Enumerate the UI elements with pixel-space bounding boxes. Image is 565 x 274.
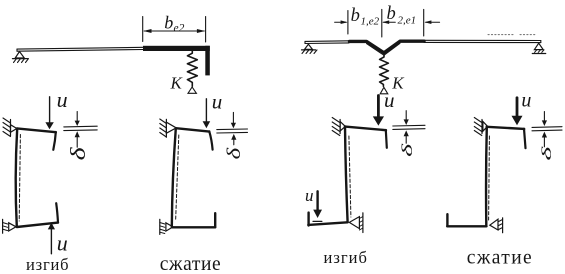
- svg-text:b: b: [387, 4, 396, 24]
- dimension right tick: [423, 9, 425, 36]
- svg-text:δ: δ: [399, 143, 415, 157]
- svg-text:u: u: [212, 89, 223, 113]
- dotted artifact line above right beam: [488, 34, 537, 36]
- svg-text:e2: e2: [174, 23, 185, 35]
- fig4 bottom support (right of web): [490, 218, 503, 233]
- svg-text:u: u: [305, 186, 314, 205]
- fig4 bottom flange (points left): [447, 225, 486, 227]
- thick effective-width flange segment: [143, 46, 210, 51]
- fig4 top load arrow u (bold): [516, 98, 519, 117]
- fig1 dashed undeformed line: [19, 135, 20, 222]
- spring K (left model): [187, 51, 197, 86]
- fig3 top lip: [386, 130, 387, 148]
- dimension b_e2: right tick: [205, 17, 207, 42]
- fig4 top lip: [524, 129, 526, 149]
- thin line under V: [367, 43, 401, 55]
- svg-text:2,e1: 2,e1: [398, 14, 417, 26]
- fig4 web: [485, 127, 488, 226]
- fig2 bottom support: [160, 219, 173, 234]
- svg-text:b: b: [351, 6, 360, 26]
- fig1 bottom load arrow u (upward): [50, 229, 52, 254]
- fig2 dashed undeformed line: [176, 135, 179, 221]
- fig1 top load arrow u: [49, 97, 51, 123]
- fig1 delta up arrow: [76, 137, 78, 147]
- svg-text:u: u: [384, 88, 395, 112]
- svg-text:b: b: [164, 13, 173, 33]
- fig4 top support: [474, 118, 487, 136]
- outside arrow pointing right at left tick: [335, 21, 347, 23]
- left pin support (top-right beam): [302, 44, 318, 53]
- fig4 delta reference lines: [532, 126, 562, 129]
- fig4 dashed undeformed line: [488, 136, 491, 220]
- fig2 top load arrow u: [205, 99, 207, 122]
- fig3 dashed undeformed line: [349, 136, 351, 217]
- fig3 tick under bottom arrow: [313, 220, 322, 222]
- right lip (vertical thick): [205, 46, 210, 76]
- svg-text:δ: δ: [222, 147, 244, 159]
- beam thin double line (top-left): [17, 47, 144, 51]
- fig1 web: [16, 129, 18, 227]
- fig2 delta reference lines: [217, 128, 248, 131]
- beam thin double line right part (top-right): [424, 40, 541, 42]
- svg-text:сжатие: сжатие: [160, 254, 222, 274]
- fig4 top flange: [487, 127, 524, 129]
- fig3 top flange: [345, 127, 386, 131]
- svg-text:K: K: [170, 74, 184, 93]
- fig2 web: [172, 128, 176, 227]
- fig2 top flange: [176, 128, 210, 131]
- dimension left tick: [347, 11, 349, 35]
- fig3 bottom load arrow u (down, bold): [316, 191, 318, 210]
- dimension b_e2: left tick: [142, 17, 144, 42]
- fig1 bottom flange: [17, 223, 58, 227]
- fig2 bottom lip (up): [214, 213, 216, 227]
- dimension middle tick: [381, 9, 383, 37]
- spring K (right model): [380, 55, 389, 86]
- fig2 delta up arrow: [233, 139, 235, 144]
- svg-text:1,e2: 1,e2: [361, 15, 380, 27]
- svg-text:u: u: [57, 87, 68, 112]
- svg-text:изгиб: изгиб: [26, 255, 69, 274]
- fig2 delta down arrow: [232, 112, 234, 123]
- fig2 bottom flange: [172, 226, 215, 228]
- outside arrow pointing left at right tick: [426, 21, 440, 23]
- fig2 top lip: [209, 131, 212, 149]
- fig4 bottom lip (up, at left end): [446, 214, 448, 226]
- fig3 delta down arrow: [405, 111, 407, 120]
- dimension b_e2: line with outward arrows: [144, 30, 204, 32]
- arrow pointing left at middle tick: [383, 21, 395, 23]
- fig1 top support: [3, 118, 17, 137]
- fig4 delta up arrow: [543, 137, 545, 147]
- svg-text:δ: δ: [539, 145, 555, 160]
- fig3 bottom flange (points left): [308, 222, 347, 225]
- fig3 delta up arrow: [405, 136, 407, 143]
- fig3 web: [345, 127, 348, 222]
- left pin support (top-left beam): [13, 52, 29, 63]
- spring base triangle (left model): [188, 87, 196, 93]
- svg-text:u: u: [521, 89, 531, 111]
- fig1 bottom lip: [56, 203, 58, 222]
- fig2 top support: [160, 119, 176, 137]
- fig1 delta reference lines: [64, 125, 97, 128]
- fig3 top support: [332, 118, 345, 136]
- fig1 top flange: [17, 128, 56, 132]
- spring base triangle (right model): [380, 87, 388, 94]
- beam thin double line left part (top-right): [305, 41, 349, 44]
- fig3 top load arrow u (bold): [377, 96, 380, 118]
- svg-text:изгиб: изгиб: [324, 248, 368, 267]
- right roller support (top-right beam): [532, 43, 545, 53]
- svg-text:сжатие: сжатие: [467, 248, 533, 269]
- fig3 delta reference lines: [393, 124, 425, 127]
- thick V flange profile: [350, 41, 425, 53]
- fig3 bottom lip (up, at left end): [307, 213, 309, 226]
- fig1 bottom support: [3, 219, 16, 233]
- svg-text:u: u: [57, 231, 68, 256]
- svg-text:δ: δ: [67, 147, 90, 161]
- fig1 delta down arrow: [76, 112, 78, 121]
- fig3 bottom support (right of web): [349, 213, 363, 233]
- fig4 delta down arrow: [543, 112, 545, 121]
- fig1 top lip: [53, 132, 56, 150]
